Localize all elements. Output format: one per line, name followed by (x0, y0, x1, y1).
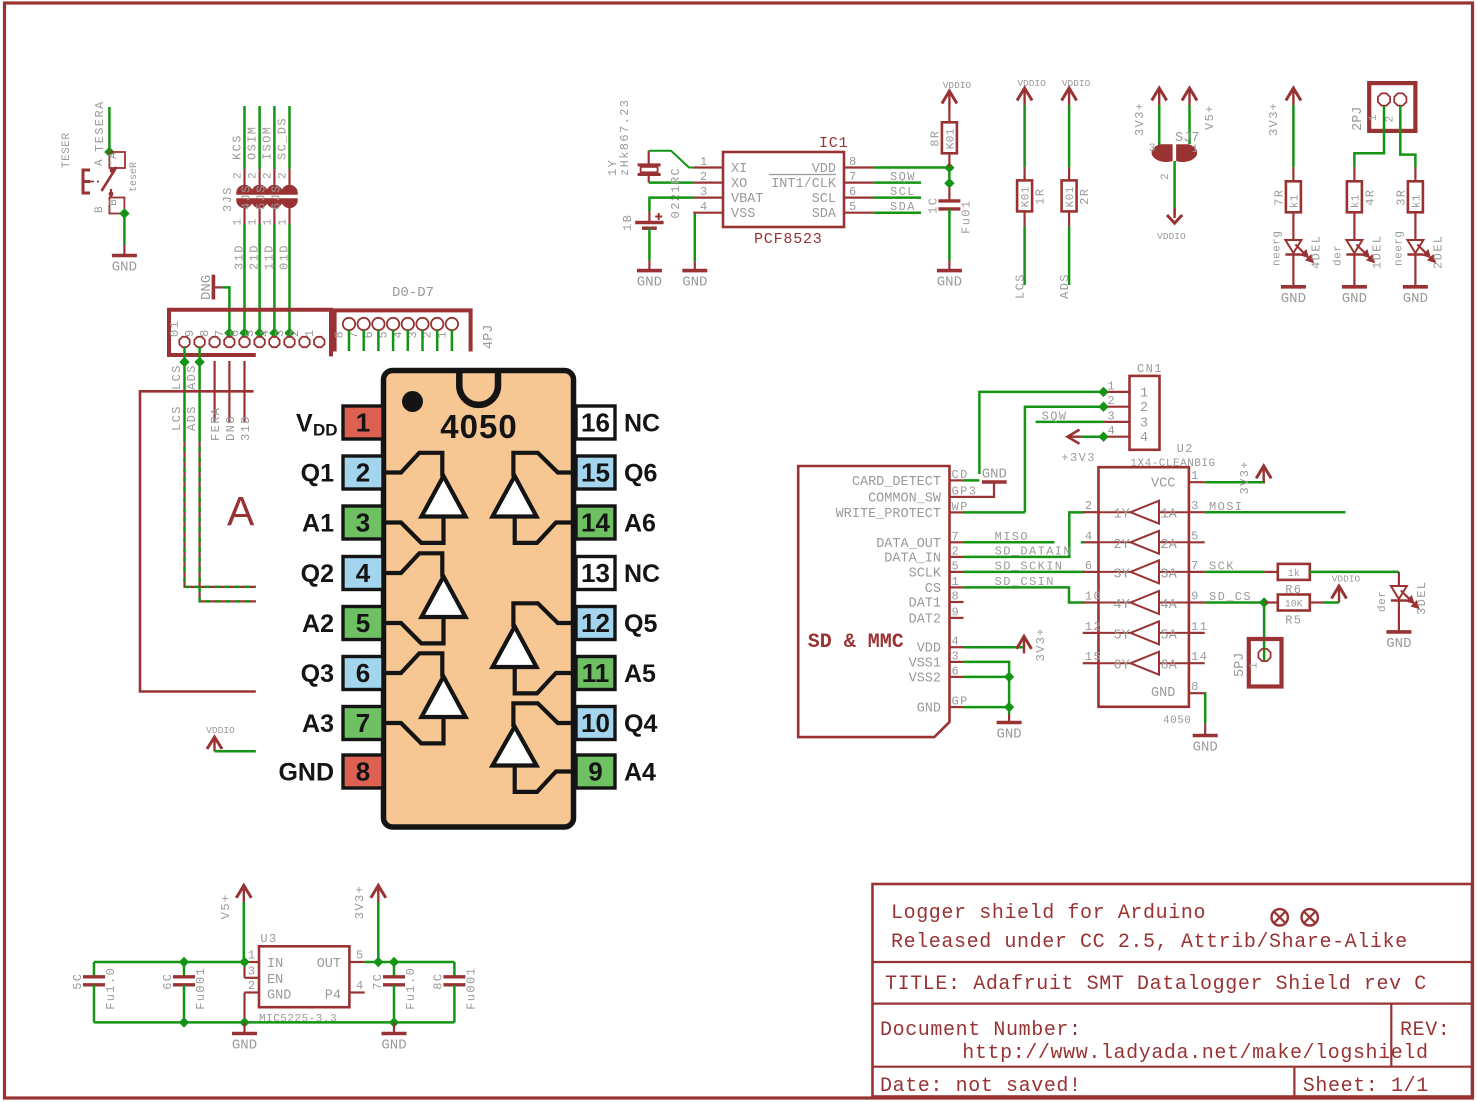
pin 9 box (A4) (576, 755, 656, 788)
junction GND pin2 (239, 1017, 249, 1027)
wire VSS to GND (693, 213, 694, 262)
junction (1098, 387, 1108, 397)
svg-text:4: 4 (356, 558, 371, 588)
junction IN (239, 957, 249, 967)
capacitor C1 10uF (938, 199, 960, 202)
resistor R1 10K (1017, 180, 1032, 211)
svg-text:2: 2 (1140, 401, 1148, 416)
junction (944, 178, 954, 188)
svg-text:11: 11 (582, 658, 610, 688)
supply +5V (SJ7) (1182, 88, 1217, 130)
wire XI to crystal (649, 151, 694, 168)
svg-text:31D: 31D (233, 244, 247, 270)
junction (224, 328, 234, 338)
svg-text:VDDIO: VDDIO (1157, 231, 1186, 242)
svg-text:4A: 4A (1161, 598, 1178, 613)
svg-text:3: 3 (952, 649, 961, 663)
supply VDDIO (R5) (1332, 574, 1361, 603)
svg-text:8: 8 (198, 328, 212, 337)
svg-text:5: 5 (356, 608, 370, 638)
svg-text:A: A (227, 488, 255, 534)
svg-text:4: 4 (1140, 431, 1148, 446)
svg-text:WRITE_PROTECT: WRITE_PROTECT (836, 507, 941, 522)
wire net SDA (pad9) (198, 347, 201, 437)
wire net SDA (874, 200, 921, 214)
svg-text:A5: A5 (624, 660, 656, 688)
wire LED2 to GND (1414, 255, 1416, 275)
junction GND (1004, 702, 1014, 712)
junction C7 top (389, 957, 399, 967)
svg-text:3: 3 (1140, 416, 1148, 431)
svg-text:8: 8 (849, 155, 858, 169)
svg-text:VDD: VDD (917, 642, 941, 657)
supply VDDIO (R1) (1017, 78, 1046, 105)
pin 12 box (Q5) (576, 607, 657, 640)
wire net SCK (243, 106, 246, 169)
svg-text:DAT2: DAT2 (909, 612, 941, 627)
svg-text:ADS: ADS (185, 364, 199, 390)
svg-text:SQW: SQW (890, 170, 916, 184)
svg-text:13: 13 (581, 558, 610, 588)
Arduino shield symbol outline (140, 391, 256, 691)
wire R5 to VDDIO (1310, 601, 1324, 603)
svg-text:LCS: LCS (170, 364, 184, 390)
svg-text:11: 11 (1191, 620, 1208, 634)
svg-text:GND: GND (637, 275, 662, 291)
svg-text:ADS: ADS (1058, 273, 1072, 299)
svg-text:GND: GND (1386, 636, 1411, 652)
svg-text:SDA: SDA (890, 200, 916, 214)
connector JP4 D0-D7 (333, 285, 498, 352)
svg-text:SC_DS: SC_DS (276, 117, 290, 160)
solder jumper SJ7 (1149, 131, 1199, 180)
junction (269, 328, 279, 338)
svg-text:MISO: MISO (995, 530, 1029, 544)
svg-text:8R: 8R (928, 130, 942, 147)
svg-text:21D: 21D (248, 244, 262, 270)
svg-text:GND: GND (682, 275, 707, 291)
svg-text:OUT: OUT (317, 957, 341, 972)
svg-text:FERA: FERA (209, 407, 223, 441)
wire JP2 pin2 to R3 (1400, 106, 1415, 167)
svg-text:Fu1.0: Fu1.0 (104, 967, 118, 1010)
resistor R8 10K (942, 122, 957, 153)
capacitor C5 0.1uF (71, 962, 118, 1022)
wire C4 to GND (948, 209, 951, 261)
svg-text:A3: A3 (302, 710, 334, 738)
svg-text:3A: 3A (1161, 567, 1178, 582)
svg-text:1: 1 (1191, 469, 1200, 483)
svg-text:K01: K01 (1065, 186, 1077, 207)
svg-text:K01: K01 (945, 128, 957, 149)
svg-text:2R: 2R (1078, 188, 1092, 205)
svg-text:SD_DATAIN: SD_DATAIN (995, 545, 1072, 559)
svg-text:10: 10 (1085, 590, 1102, 604)
wire SD_CS to JP5 (1263, 603, 1266, 662)
svg-text:4R: 4R (1363, 189, 1377, 206)
battery B1 CR1220 (621, 167, 683, 231)
svg-text:Fu001: Fu001 (194, 967, 208, 1010)
supply +5V (U3) (219, 885, 251, 919)
svg-text:3: 3 (1149, 143, 1156, 155)
wire net MOSI (273, 106, 276, 169)
wire JP2 pin1 to R4 (1354, 106, 1384, 167)
svg-text:GND: GND (278, 759, 334, 787)
wire net ARESET (93, 100, 109, 152)
wire GND pin2 down (243, 993, 245, 1023)
svg-text:8: 8 (1191, 680, 1200, 694)
wire +3V3 to CN1 pin4 (1082, 435, 1104, 438)
svg-text:A6: A6 (624, 510, 656, 538)
buffer gate 6 (pins 15,14) (493, 453, 577, 543)
svg-text:9: 9 (952, 605, 961, 619)
svg-text:VBAT: VBAT (731, 192, 763, 207)
svg-text:Document Number:: Document Number: (880, 1019, 1082, 1042)
svg-text:3V3+: 3V3+ (1133, 102, 1147, 136)
svg-text:GND: GND (1151, 686, 1175, 701)
ground GND (C4) (948, 260, 950, 270)
switch S1 Reset (61, 132, 140, 213)
svg-text:1: 1 (1368, 114, 1380, 121)
wire to GND (123, 214, 126, 246)
svg-text:2: 2 (700, 170, 709, 184)
pin 16 box (NC) (576, 406, 660, 439)
tiny 2Y stub (1081, 541, 1084, 544)
svg-text:5: 5 (1191, 529, 1200, 543)
svg-text:ISOM: ISOM (260, 126, 274, 160)
svg-text:10: 10 (581, 708, 610, 738)
svg-text:0221RC: 0221RC (669, 167, 683, 219)
svg-text:4DEL: 4DEL (1309, 235, 1323, 269)
wire net MISO (258, 106, 261, 169)
wire R3 to LED2 (1414, 212, 1416, 240)
svg-text:GND: GND (112, 260, 137, 276)
supply +3V3 (CN1 pin4, left arrow) (1061, 430, 1095, 465)
IC U1 PCF8523 (IC1) (693, 135, 873, 248)
svg-text:3: 3 (1191, 499, 1200, 513)
buffer gate 2 (pins 4,5) (383, 553, 466, 643)
svg-text:VDDIO: VDDIO (943, 80, 972, 91)
svg-text:U2: U2 (1177, 442, 1194, 456)
svg-text:Released under CC 2.5, Attrib/: Released under CC 2.5, Attrib/Share-Alik… (891, 931, 1408, 954)
pin 1 box (VDD) (296, 406, 383, 440)
svg-text:1R: 1R (1034, 188, 1048, 205)
wire net D10 (288, 224, 291, 337)
svg-text:9: 9 (1191, 590, 1200, 604)
wire +5V to IN (243, 902, 246, 962)
svg-text:A2: A2 (302, 610, 334, 638)
wire net D11 (273, 224, 276, 337)
svg-text:7: 7 (213, 328, 227, 337)
svg-text:1: 1 (1192, 144, 1199, 156)
svg-text:Logger shield for Arduino: Logger shield for Arduino (891, 902, 1206, 925)
wire VDDIO to R2 (1068, 105, 1071, 167)
SD card socket J1 SD & MMC (798, 466, 977, 737)
connector header 10-pin (JP4 left) (168, 310, 331, 357)
pin 4 box (Q2) (301, 557, 383, 590)
svg-text:2Y: 2Y (1114, 538, 1130, 553)
svg-text:REV:: REV: (1400, 1019, 1450, 1042)
ground GND (LED4) (1292, 274, 1294, 287)
wire input rail (94, 961, 245, 964)
wire SJ7 to VDDIO (1173, 161, 1176, 215)
solder jumper SJ3 (221, 169, 253, 226)
junction (179, 357, 189, 367)
svg-text:P4: P4 (325, 989, 341, 1004)
svg-text:3: 3 (248, 965, 257, 979)
supply +3V3 (U2) (1238, 460, 1271, 494)
svg-text:3DEL: 3DEL (1415, 581, 1429, 615)
svg-text:1: 1 (248, 218, 260, 225)
svg-text:5A: 5A (1161, 628, 1178, 643)
wire R7 to LED4 (1292, 212, 1294, 240)
svg-text:Date: not saved!: Date: not saved! (880, 1075, 1082, 1098)
svg-text:A4: A4 (624, 759, 656, 787)
wire net SQW (874, 170, 921, 184)
svg-text:TESER: TESER (61, 132, 73, 168)
svg-text:1DEL: 1DEL (1370, 235, 1384, 269)
svg-text:7R: 7R (1272, 189, 1286, 206)
svg-text:TESERA: TESERA (93, 100, 107, 152)
ground GND (card detect, inverted) (982, 467, 1007, 483)
svg-text:3: 3 (700, 185, 709, 199)
pin 6 box (Q3) (301, 657, 383, 690)
capacitor C7 0.1uF (371, 962, 418, 1022)
svg-text:R5: R5 (1285, 614, 1302, 628)
wire net SD_CS (288, 106, 291, 169)
wire IN to EN (243, 962, 245, 978)
svg-text:LCS: LCS (170, 405, 184, 431)
svg-text:COMMON_SW: COMMON_SW (868, 491, 942, 506)
svg-text:GND: GND (1193, 740, 1218, 756)
wire R6 to LED3 (1310, 571, 1399, 574)
wire XO to crystal (649, 181, 694, 184)
svg-text:LCS: LCS (1014, 273, 1028, 299)
svg-text:4: 4 (356, 979, 365, 993)
svg-text:4: 4 (1108, 424, 1117, 438)
svg-text:teseR: teseR (129, 162, 140, 192)
svg-text:1: 1 (303, 328, 317, 337)
svg-text:5: 5 (243, 328, 257, 337)
svg-text:PCF8523: PCF8523 (754, 231, 823, 248)
svg-text:http://www.ladyada.net/make/lo: http://www.ladyada.net/make/logshield (962, 1042, 1428, 1065)
junction SD_CS (1259, 597, 1269, 607)
wire net SDA dashed (200, 437, 256, 601)
svg-text:5C: 5C (71, 973, 85, 990)
pin 14 box (A6) (576, 506, 656, 539)
svg-text:neerg: neerg (1393, 230, 1405, 266)
svg-text:2: 2 (1085, 499, 1094, 513)
svg-text:1X4-CLEANBIG: 1X4-CLEANBIG (1130, 458, 1215, 470)
svg-text:9: 9 (588, 757, 602, 787)
svg-text:VSS: VSS (731, 207, 755, 222)
buffer gate 5 (pins 12,11) (493, 603, 577, 693)
wire net D13 (243, 224, 246, 337)
svg-text:Fu001: Fu001 (464, 967, 478, 1010)
junction C6 bottom (179, 1017, 189, 1027)
svg-text:4: 4 (258, 328, 272, 337)
supply +3V3 (SD VDD) (1017, 627, 1049, 661)
svg-text:4JS: 4JS (240, 184, 254, 210)
svg-text:14: 14 (581, 508, 610, 538)
svg-text:14: 14 (1191, 650, 1208, 664)
ground GND (header pin 7) (199, 275, 223, 300)
svg-text:4: 4 (952, 635, 961, 649)
svg-text:zHk867.23: zHk867.23 (618, 99, 632, 176)
svg-text:der: der (1377, 591, 1389, 612)
svg-text:5: 5 (849, 200, 858, 214)
svg-text:1A: 1A (1161, 508, 1178, 523)
wire net SD_DATAIN (964, 512, 1085, 558)
svg-text:GND: GND (996, 727, 1021, 743)
solder jumper SJ4 (240, 169, 268, 226)
svg-text:4: 4 (700, 200, 709, 214)
ground GND (reset) (123, 245, 125, 256)
supply VDDIO (R2) (1062, 78, 1091, 105)
ground GND (LED2) (1414, 274, 1416, 287)
svg-text:7C: 7C (371, 973, 385, 990)
svg-text:3V3+: 3V3+ (1238, 460, 1252, 494)
svg-text:GND: GND (381, 1038, 406, 1054)
title block (873, 884, 1473, 1097)
pin 3 box (A1) (302, 506, 383, 539)
svg-text:MOSI: MOSI (1209, 500, 1243, 514)
svg-text:NC: NC (624, 560, 660, 588)
svg-text:7: 7 (952, 530, 961, 544)
svg-text:4PJ: 4PJ (482, 325, 497, 349)
crystal Y1 32.768kHz (606, 99, 661, 183)
svg-text:3: 3 (1108, 409, 1117, 423)
svg-text:INT1/CLK: INT1/CLK (771, 177, 837, 192)
svg-text:SQW: SQW (1042, 410, 1068, 424)
wire net SCL dashed (185, 437, 256, 587)
svg-text:VSS1: VSS1 (909, 656, 941, 671)
svg-text:der: der (1332, 245, 1344, 266)
wire +3V3 to R7 (1292, 105, 1295, 167)
svg-text:XO: XO (731, 177, 747, 192)
svg-text:4050: 4050 (440, 408, 517, 445)
solder jumper SJ6 (270, 169, 298, 226)
svg-text:VSS2: VSS2 (909, 671, 941, 686)
pin D13 (Arduino) (243, 361, 245, 422)
svg-text:DD: DD (313, 421, 338, 440)
pin 11 box (A5) (576, 657, 656, 690)
svg-text:Q6: Q6 (624, 460, 657, 488)
svg-text:01: 01 (168, 320, 182, 337)
junction (1098, 402, 1108, 412)
svg-text:8: 8 (333, 330, 347, 339)
svg-text:TITLE: Adafruit SMT Datalogge: TITLE: Adafruit SMT Datalogger Shield re… (885, 973, 1427, 996)
wire OUT rail (365, 961, 455, 964)
svg-text:GND: GND (1342, 291, 1367, 307)
svg-text:1: 1 (1249, 662, 1261, 669)
ground GND (LED3) (1398, 619, 1400, 632)
wire +3V3 to SJ7 (1158, 105, 1161, 146)
wire +5V to SJ7 (1188, 105, 1191, 144)
svg-text:A1: A1 (302, 510, 334, 538)
svg-text:'A: 'A (108, 152, 120, 166)
svg-text:ADS: ADS (185, 405, 199, 431)
pin 7 box (A3) (302, 707, 383, 740)
svg-text:DNG: DNG (224, 415, 238, 441)
wire VBAT to battery (649, 198, 693, 211)
svg-text:2PJ: 2PJ (1351, 107, 1366, 131)
svg-text:3: 3 (356, 508, 370, 538)
svg-text:2: 2 (233, 172, 245, 179)
svg-text:2: 2 (952, 544, 961, 558)
wire net SD_SCKIN (964, 560, 1085, 574)
wire net SD_CS (1205, 590, 1264, 604)
junction (239, 328, 249, 338)
svg-text:Q1: Q1 (301, 460, 334, 488)
pin 15 box (Q6) (576, 456, 657, 489)
IC 4050 pinout diagram (257, 362, 685, 840)
svg-text:V5+: V5+ (219, 893, 233, 919)
svg-text:Q2: Q2 (301, 560, 334, 588)
resistor R2 10K (1062, 180, 1077, 211)
svg-text:VDDIO: VDDIO (1332, 574, 1361, 585)
LED1 red (1346, 240, 1362, 253)
svg-text:1k: 1k (1288, 568, 1300, 580)
LED3 red (1391, 586, 1407, 599)
svg-text:IN: IN (267, 957, 283, 972)
svg-text:3Y: 3Y (1114, 567, 1130, 582)
svg-text:7: 7 (1191, 559, 1200, 573)
wire VDDIO to R1 (1023, 105, 1026, 167)
svg-text:4Y: 4Y (1114, 598, 1130, 613)
svg-text:EN: EN (267, 973, 283, 988)
svg-text:MIC5225-3.3: MIC5225-3.3 (259, 1014, 337, 1026)
svg-text:2: 2 (288, 328, 302, 337)
svg-text:3V3+: 3V3+ (1034, 627, 1048, 661)
CC logo symbols (1272, 909, 1318, 925)
svg-text:Q3: Q3 (301, 660, 334, 688)
svg-text:Q4: Q4 (624, 710, 657, 738)
LED2 green (1407, 240, 1423, 253)
wire net MOSI (1205, 500, 1346, 514)
svg-text:2A: 2A (1161, 538, 1178, 553)
connector JP5 (1233, 639, 1282, 687)
svg-text:GND: GND (267, 989, 291, 1004)
supply +3V3 (R7) (1267, 88, 1301, 136)
svg-text:1: 1 (952, 575, 961, 589)
junction VSS2 (1004, 672, 1014, 682)
svg-text:31D: 31D (239, 415, 253, 441)
svg-text:6: 6 (849, 185, 858, 199)
svg-text:5PJ: 5PJ (1233, 653, 1248, 677)
svg-text:8: 8 (356, 757, 370, 787)
svg-text:SCL: SCL (890, 185, 916, 199)
svg-text:16: 16 (581, 408, 610, 438)
wire net D12 (258, 224, 261, 337)
svg-text:GND: GND (917, 702, 941, 717)
svg-text:3: 3 (273, 328, 287, 337)
wire CN1 pin2 to WP (1025, 407, 1104, 513)
LED4 green (1285, 240, 1301, 253)
wire VCC to +3V3 (1205, 481, 1265, 484)
svg-text:3V3+: 3V3+ (1267, 102, 1281, 136)
svg-text:1: 1 (356, 408, 370, 438)
svg-text:6Y: 6Y (1114, 659, 1130, 674)
svg-text:1: 1 (1140, 386, 1148, 401)
svg-text:2: 2 (1385, 115, 1397, 122)
svg-text:4: 4 (1085, 529, 1094, 543)
svg-text:11D: 11D (262, 244, 276, 270)
svg-text:7: 7 (356, 708, 370, 738)
svg-text:GND: GND (1281, 291, 1306, 307)
pin 13 box (NC) (576, 557, 660, 590)
svg-text:CARD_DETECT: CARD_DETECT (852, 475, 941, 490)
